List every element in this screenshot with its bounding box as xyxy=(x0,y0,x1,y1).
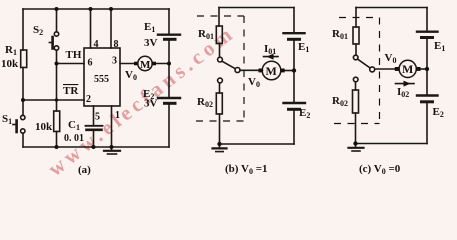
ground (b) bar 2 xyxy=(216,151,223,153)
switch S1 contact bottom xyxy=(21,129,25,133)
arrowhead I01 (b) xyxy=(267,54,274,60)
motor M (c) xyxy=(399,60,416,77)
wire motor to right rail (c) xyxy=(416,68,427,70)
battery E1 (a) long plate xyxy=(158,34,180,36)
junction dot left rail pin2 (a) xyxy=(21,98,25,102)
motor terminal wedge right (b) xyxy=(281,69,285,73)
wire 10k to bottom rail xyxy=(56,132,58,148)
wire motor to right rail (a) xyxy=(152,63,169,65)
wire S2 branch from top rail xyxy=(56,9,58,32)
wire C1 to bottom rail xyxy=(93,131,95,147)
svg-text:3V: 3V xyxy=(144,98,158,110)
ground (c) stub xyxy=(355,144,357,148)
wire top rail (a) xyxy=(23,8,169,10)
svg-text:8: 8 xyxy=(114,39,119,50)
battery E2 (c) short plate xyxy=(422,100,433,103)
svg-text:0. 01: 0. 01 xyxy=(64,133,84,144)
wire TH to pin 6 xyxy=(57,63,85,65)
wire right rail mid (c) xyxy=(426,39,428,95)
wire TH node vertical xyxy=(56,50,58,111)
switch arm (c) xyxy=(358,59,370,68)
wire R01 branch top (c) xyxy=(355,8,357,28)
svg-text:(a): (a) xyxy=(78,164,91,176)
wire pin 5 to C1 xyxy=(93,106,95,125)
battery E2 (c) long plate xyxy=(417,94,438,96)
switch contact bottom (b) xyxy=(218,78,223,83)
resistor R02 (c) xyxy=(353,90,359,113)
svg-text:10k: 10k xyxy=(1,58,19,70)
switch S1 actuator stub xyxy=(13,124,16,126)
junction dot bottom rail pin1 (a) xyxy=(110,145,114,149)
wire top rail (b) xyxy=(219,7,294,9)
switch contact bottom (c) xyxy=(353,77,358,82)
current arrow I01 (b) xyxy=(264,56,279,58)
svg-text:1: 1 xyxy=(115,110,120,121)
wire pin 4 xyxy=(90,9,92,48)
switch S2 actuator stub xyxy=(49,42,51,44)
battery E1 (a) short plate xyxy=(165,38,176,41)
motor M (b) xyxy=(262,61,281,80)
arrowhead I02 (c) xyxy=(404,81,411,87)
switch S2 actuator bar xyxy=(51,37,54,49)
motor terminal wedge right (a) xyxy=(152,62,156,66)
wire pole to motor (b) xyxy=(240,69,263,71)
junction dot TH node (a) xyxy=(55,62,59,66)
svg-text:2: 2 xyxy=(86,94,91,105)
junction dot motor right rail (a) xyxy=(167,62,171,66)
capacitor C1 bottom plate xyxy=(87,129,102,132)
wire pole to motor (c) xyxy=(375,68,399,70)
svg-text:3: 3 xyxy=(112,56,117,67)
switch pole (b) xyxy=(235,68,240,73)
IC 555 box U1 xyxy=(84,48,120,106)
svg-text:10k: 10k xyxy=(35,121,53,133)
ground (a) stub xyxy=(111,147,113,150)
resistor R01 (b) xyxy=(216,26,222,44)
svg-text:555: 555 xyxy=(94,74,109,85)
wire bottom rail (a) xyxy=(23,146,169,148)
current arrow I02 (c) xyxy=(396,83,415,85)
wire right rail mid (b) xyxy=(293,41,295,103)
wire pin 2 horizontal xyxy=(23,99,84,101)
capacitor C1 top plate xyxy=(86,125,103,127)
battery E1 (c) short plate xyxy=(422,36,433,39)
junction dot 10k top (a) xyxy=(55,98,58,101)
resistor R02 (b) xyxy=(216,93,222,114)
ground (a) bar 2 xyxy=(108,153,117,155)
junction dot top rail S2 (a) xyxy=(55,7,59,11)
switch S1 contact top xyxy=(21,115,25,119)
wire pin 3 to motor xyxy=(120,63,135,65)
wire right rail bottom (b) xyxy=(293,111,295,144)
wire right rail top (c) xyxy=(426,8,428,32)
svg-text:4: 4 xyxy=(94,39,99,50)
ground (a) bar 1 xyxy=(104,150,120,152)
svg-text:(b) V0 =1: (b) V0 =1 xyxy=(225,163,267,176)
wire pin 1 to ground xyxy=(111,106,113,147)
wire right rail top (b) xyxy=(293,8,295,33)
motor terminal wedge left (c) xyxy=(395,67,399,71)
wire R02 to bottom rail (c) xyxy=(355,113,357,144)
wire left rail upper (a) xyxy=(22,9,24,50)
dashed box (b) xyxy=(196,16,244,121)
battery E2 (a) long plate xyxy=(158,97,180,99)
wire motor to right rail (b) xyxy=(281,70,294,72)
svg-text:(c) V0 =0: (c) V0 =0 xyxy=(359,163,401,176)
wire bottom rail (c) xyxy=(356,143,428,145)
junction dot bottom rail (c) xyxy=(353,141,357,145)
battery E1 (c) long plate xyxy=(417,31,438,33)
junction dot motor right rail (b) xyxy=(292,68,296,72)
switch S2 contact top xyxy=(54,32,58,36)
switch arm (b) xyxy=(222,61,235,68)
resistor R01 (c) xyxy=(353,27,359,44)
switch pole (c) xyxy=(370,67,375,72)
wire contact bottom to R02 (b) xyxy=(219,83,221,93)
battery E2 (b) short plate xyxy=(289,108,300,111)
resistor R1 xyxy=(21,50,27,68)
wire bottom rail (b) xyxy=(220,143,295,145)
wire left rail mid (a) xyxy=(22,68,24,116)
junction dot bottom rail (b) xyxy=(217,142,221,146)
ground (b) stub xyxy=(219,144,221,148)
svg-text:M: M xyxy=(402,62,413,76)
motor M (a) xyxy=(138,56,152,70)
wire right rail bottom (c) xyxy=(426,103,428,143)
motor terminal wedge left (b) xyxy=(259,69,263,73)
wire right rail top (a) xyxy=(168,9,170,34)
wire contact bottom to R02 (c) xyxy=(355,82,357,90)
ground (c) bar 1 xyxy=(349,147,364,149)
dashed box (c) xyxy=(334,18,380,124)
junction dot top rail pin4 (a) xyxy=(89,7,93,11)
switch contact top (b) xyxy=(218,57,223,62)
ground (c) bar 2 xyxy=(352,150,360,152)
svg-text:TR: TR xyxy=(63,85,79,97)
switch contact top (c) xyxy=(353,55,358,60)
junction dot motor right rail (c) xyxy=(425,67,429,71)
watermark www.elecfans.com xyxy=(43,20,239,181)
battery E1 (b) long plate xyxy=(284,32,305,34)
switch S2 contact bottom xyxy=(54,46,58,50)
svg-text:TH: TH xyxy=(66,49,82,61)
svg-text:5: 5 xyxy=(95,112,100,123)
wire right rail bottom (a) xyxy=(168,105,170,147)
svg-text:M: M xyxy=(266,64,277,78)
wire left rail lower (a) xyxy=(22,133,24,147)
motor terminal wedge left (a) xyxy=(134,62,138,66)
svg-text:M: M xyxy=(140,59,151,71)
svg-text:6: 6 xyxy=(88,58,93,69)
wire R01 to switch (c) xyxy=(355,44,357,55)
wire top rail (c) xyxy=(356,7,427,9)
battery E1 (b) short plate xyxy=(289,38,300,41)
wire R01 to switch (b) xyxy=(219,44,221,58)
svg-text:3V: 3V xyxy=(144,37,158,49)
resistor 10k lower xyxy=(54,111,60,132)
battery E2 (b) long plate xyxy=(284,102,306,104)
motor terminal wedge right (c) xyxy=(416,67,420,71)
junction dot bottom rail S2 (a) xyxy=(55,145,59,149)
wire R02 to bottom rail (b) xyxy=(219,114,221,144)
junction dot bottom rail C1 (a) xyxy=(92,145,96,149)
switch S1 actuator bar xyxy=(15,121,18,133)
junction dot top rail pin8 (a) xyxy=(109,7,113,11)
wire R01 branch top (b) xyxy=(218,8,220,27)
wire pin 8 xyxy=(110,9,112,48)
wire right rail mid (a) xyxy=(168,41,170,97)
ground (b) bar 1 xyxy=(213,147,227,149)
battery E2 (a) short plate xyxy=(165,102,176,105)
